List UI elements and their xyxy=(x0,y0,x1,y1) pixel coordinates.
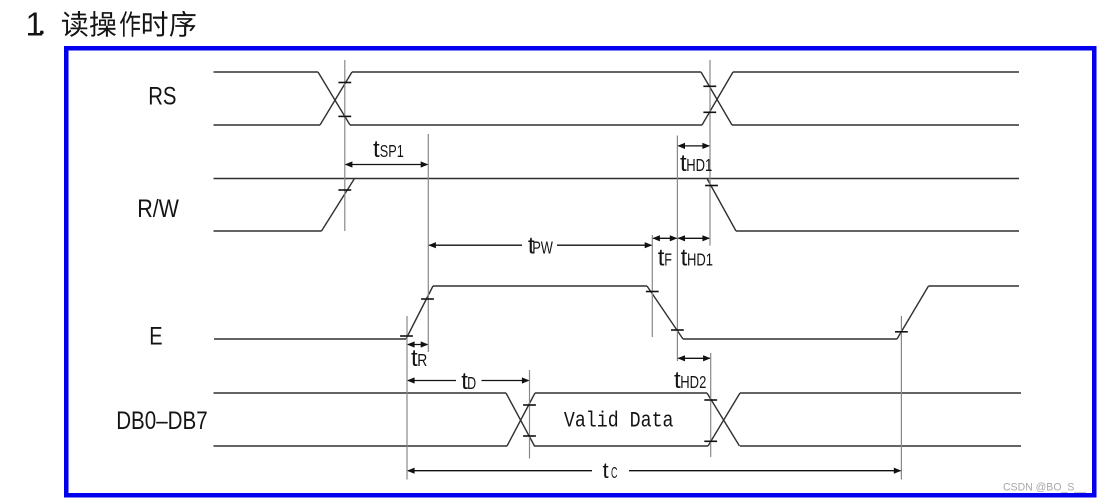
title char 读 xyxy=(62,11,88,37)
svg-text:HD1: HD1 xyxy=(687,249,713,269)
svg-text:1: 1 xyxy=(26,6,44,43)
title char 时 xyxy=(143,11,168,36)
svg-text:SP1: SP1 xyxy=(380,141,404,161)
svg-text:t: t xyxy=(603,458,609,483)
svg-text:PW: PW xyxy=(532,237,553,257)
wire E high seg1 xyxy=(433,285,647,287)
tick xyxy=(421,298,434,300)
tick xyxy=(895,331,908,333)
svg-text:HD1: HD1 xyxy=(686,155,712,175)
svg-text:CSDN @BO_S__: CSDN @BO_S__ xyxy=(1003,482,1087,494)
tick xyxy=(704,399,717,401)
ref line V7 upper (RS hold ref) xyxy=(709,60,711,246)
ref line V5 (E fall start ref) xyxy=(651,235,653,337)
title char 作 xyxy=(120,11,140,37)
wire RS high seg1 xyxy=(214,71,319,73)
arrow tHD1 upper xyxy=(677,143,685,149)
wire E high seg2 xyxy=(929,285,1020,287)
wire RS high seg3 xyxy=(733,71,1019,73)
svg-text:RS: RS xyxy=(148,83,176,111)
ref line V8 (cycle end ref) xyxy=(900,316,902,480)
E falling edge xyxy=(647,286,683,339)
tick xyxy=(705,185,718,187)
svg-text:R: R xyxy=(417,350,427,370)
wire RS low seg2 xyxy=(350,124,702,126)
tick xyxy=(523,435,536,437)
svg-text:Valid Data: Valid Data xyxy=(564,409,674,434)
tick xyxy=(338,82,351,84)
tick xyxy=(671,329,684,331)
R/W falling edge xyxy=(707,179,736,232)
wire DB high seg1 xyxy=(214,392,507,394)
E rising edge 2 xyxy=(897,286,929,339)
tick xyxy=(646,291,659,293)
wire R/W low seg1 xyxy=(214,230,322,232)
tick xyxy=(400,335,413,337)
arrow tHD1 lower xyxy=(677,235,685,241)
ref line V2 (E rise ref) xyxy=(427,134,429,352)
arrow tR xyxy=(407,341,415,347)
wire DB low seg1 xyxy=(214,445,508,447)
tick xyxy=(703,111,716,113)
RS crossover X2 falling xyxy=(701,72,732,125)
DB crossover X2 falling xyxy=(707,393,740,446)
ref line V7 lower (data hold ref) xyxy=(710,353,712,457)
wire DB high seg3 xyxy=(740,392,1021,394)
arrow tSP1 xyxy=(345,161,353,167)
wire E low seg2 xyxy=(683,338,897,340)
wire RS low seg3 xyxy=(732,124,1019,126)
svg-text:C: C xyxy=(611,465,618,482)
wire DB low seg2 xyxy=(534,445,708,447)
RS crossover X1 falling xyxy=(318,72,350,125)
ref line V6 (E fall end ref) xyxy=(676,136,678,362)
tick xyxy=(704,440,717,442)
wire DB high seg2 xyxy=(535,392,707,394)
tick xyxy=(338,189,351,191)
RS crossover X2 rising xyxy=(702,72,733,125)
tick xyxy=(338,115,351,117)
wire DB low seg3 xyxy=(740,445,1021,447)
arrow tF xyxy=(652,235,660,241)
tick xyxy=(523,404,536,406)
svg-text:E: E xyxy=(149,323,162,351)
wire R/W low seg2 xyxy=(736,230,1019,232)
tick xyxy=(703,85,716,87)
title char 操 xyxy=(90,11,116,37)
DB crossover X1 falling xyxy=(506,393,535,446)
DB crossover X1 rising xyxy=(507,393,535,446)
wire E low seg1 xyxy=(214,338,406,340)
svg-text:D: D xyxy=(467,373,476,393)
svg-text:R/W: R/W xyxy=(137,195,179,223)
svg-text:DB0–DB7: DB0–DB7 xyxy=(116,407,208,435)
arrow tHD2 xyxy=(677,355,685,361)
arrow tD xyxy=(407,377,415,383)
E rising edge 1 xyxy=(406,286,433,339)
wire RS high seg2 xyxy=(352,71,701,73)
ref line V3 (E rise start ref) xyxy=(406,316,408,480)
RS crossover X1 rising xyxy=(320,72,352,125)
DB crossover X2 rising xyxy=(708,393,740,446)
arrow tPW xyxy=(428,242,436,248)
wire RS low seg1 xyxy=(214,124,321,126)
ref line V1 (RS/RW setup) xyxy=(344,60,346,231)
svg-text:F: F xyxy=(664,249,672,269)
title char 序 xyxy=(170,11,196,37)
ref line V4 (data valid ref) xyxy=(529,370,531,459)
R/W rising edge xyxy=(322,179,355,232)
arrow tC xyxy=(407,468,415,474)
wire R/W high full xyxy=(214,178,1020,180)
svg-text:HD2: HD2 xyxy=(680,372,706,392)
